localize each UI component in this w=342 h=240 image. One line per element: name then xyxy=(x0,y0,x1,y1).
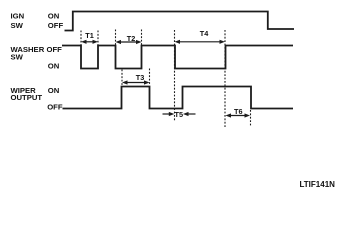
dotted guide T4 right x=225 xyxy=(224,30,226,127)
arrow T6 xyxy=(226,113,251,117)
svg-text:SW: SW xyxy=(11,52,24,61)
svg-text:T3: T3 xyxy=(136,73,145,82)
arrow T3 xyxy=(122,80,150,84)
dotted guide T1 left x=81 xyxy=(80,31,82,46)
svg-text:ON: ON xyxy=(48,12,60,21)
svg-text:IGN: IGN xyxy=(11,12,25,21)
arrow T5 right tail xyxy=(183,112,196,116)
dotted guide T3 left x=122 xyxy=(121,70,123,86)
svg-text:OFF: OFF xyxy=(47,45,63,54)
arrow T2 xyxy=(116,40,142,44)
svg-text:OFF: OFF xyxy=(48,21,64,30)
svg-text:OUTPUT: OUTPUT xyxy=(11,93,43,102)
svg-text:T2: T2 xyxy=(127,34,136,43)
dotted guide T3 right x=149.5 xyxy=(149,69,151,86)
arrow T5 left tail xyxy=(163,112,175,116)
label WASHER SW xyxy=(11,45,45,61)
svg-text:OFF: OFF xyxy=(47,103,63,112)
dotted guide T2 right x=141.5 xyxy=(141,30,143,46)
svg-text:ON: ON xyxy=(48,62,60,71)
svg-text:LTIF141N: LTIF141N xyxy=(300,180,336,189)
svg-text:SW: SW xyxy=(11,21,24,30)
waveform WASHER SW xyxy=(62,46,293,69)
svg-text:T5: T5 xyxy=(175,110,184,119)
dotted guide T4 left x=174.5 xyxy=(174,30,176,121)
waveform WIPER OUTPUT xyxy=(63,87,294,109)
svg-text:T4: T4 xyxy=(200,29,209,38)
label WIPER OUTPUT xyxy=(11,86,43,102)
dotted guide T2 left x=115.5 xyxy=(115,30,117,46)
waveform IGN SW xyxy=(65,12,295,31)
label IGN SW xyxy=(11,12,25,30)
dotted guide T1 right x=98 xyxy=(97,31,99,46)
arrow T1 xyxy=(81,40,98,44)
arrow T4 xyxy=(175,40,226,44)
svg-text:T1: T1 xyxy=(85,31,94,40)
svg-text:ON: ON xyxy=(48,86,60,95)
dotted guide T6 right x=250.5 xyxy=(250,110,252,127)
svg-text:T6: T6 xyxy=(234,107,243,116)
